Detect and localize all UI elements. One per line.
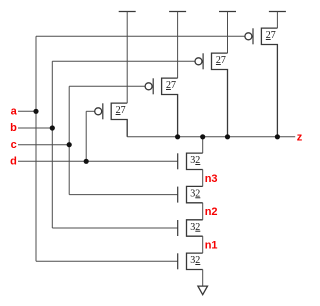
svg-text:n1: n1 bbox=[205, 239, 218, 251]
value label 32 of N1 bbox=[190, 255, 200, 266]
svg-text:d: d bbox=[10, 155, 17, 167]
power VDD symbol above P2 bbox=[169, 12, 186, 79]
junction c bbox=[67, 142, 72, 147]
junction a bbox=[33, 109, 38, 114]
wire a to P4 gate bbox=[36, 35, 245, 37]
wire b to N2 gate bbox=[52, 227, 177, 229]
wire a vertical bbox=[35, 36, 37, 261]
value label 32 of N3 bbox=[190, 188, 200, 199]
wire a to N1 gate bbox=[36, 260, 178, 262]
svg-text:a: a bbox=[11, 105, 18, 117]
wire input d stub bbox=[18, 160, 86, 162]
wire rail to N4 drain bbox=[202, 137, 204, 153]
nmos transistor N4 bbox=[178, 153, 203, 169]
power VDD symbol above P1 bbox=[119, 12, 136, 104]
nmos transistor N3 bbox=[178, 186, 203, 202]
junction P2 drain on rail bbox=[175, 134, 180, 139]
wire node n3 (N4-N3) bbox=[202, 170, 204, 187]
junction nmos stack on rail bbox=[200, 134, 205, 139]
wire input c stub bbox=[18, 144, 69, 146]
value label 27 of P4 bbox=[266, 30, 276, 41]
value label 32 of N2 bbox=[190, 222, 200, 233]
junction b bbox=[50, 125, 55, 130]
value label 27 of P3 bbox=[216, 55, 226, 66]
svg-text:n3: n3 bbox=[205, 173, 218, 185]
power VDD symbol above P3 bbox=[219, 12, 236, 54]
wire output rail to z bbox=[127, 136, 295, 138]
wire b vertical bbox=[51, 61, 53, 228]
junction P4 drain on rail bbox=[275, 134, 280, 139]
wire c to N3 gate bbox=[69, 194, 178, 196]
nmos transistor N2 bbox=[178, 220, 203, 236]
ground symbol bbox=[198, 286, 208, 295]
value label 27 of P2 bbox=[166, 80, 176, 91]
wire node n2 (N3-N2) bbox=[202, 203, 204, 220]
junction d bbox=[84, 159, 89, 164]
wire node n1 (N2-N1) bbox=[202, 236, 204, 253]
wire b to P3 gate bbox=[52, 60, 195, 62]
svg-text:n2: n2 bbox=[205, 206, 218, 218]
wire c vertical bbox=[68, 86, 70, 194]
wire c to P2 gate bbox=[69, 85, 145, 87]
wire input b stub bbox=[18, 127, 52, 129]
value label 32 of N4 bbox=[190, 155, 200, 166]
wire input a stub bbox=[18, 110, 36, 112]
pmos transistor P4 bbox=[245, 28, 278, 137]
pmos transistor P2 bbox=[145, 78, 178, 137]
wire N1 source to ground bbox=[202, 270, 204, 287]
pmos transistor P1 bbox=[95, 103, 128, 137]
pmos transistor P3 bbox=[195, 53, 228, 137]
power VDD symbol above P4 bbox=[269, 12, 286, 29]
svg-text:b: b bbox=[10, 122, 17, 134]
svg-text:z: z bbox=[297, 131, 303, 143]
value label 27 of P1 bbox=[116, 105, 126, 116]
wire d vertical bbox=[85, 111, 87, 161]
wire d to P1 gate bbox=[86, 110, 95, 112]
junction P3 drain on rail bbox=[225, 134, 230, 139]
nmos transistor N1 bbox=[178, 253, 203, 269]
svg-text:c: c bbox=[11, 139, 17, 151]
wire d to N4 gate bbox=[86, 160, 178, 162]
